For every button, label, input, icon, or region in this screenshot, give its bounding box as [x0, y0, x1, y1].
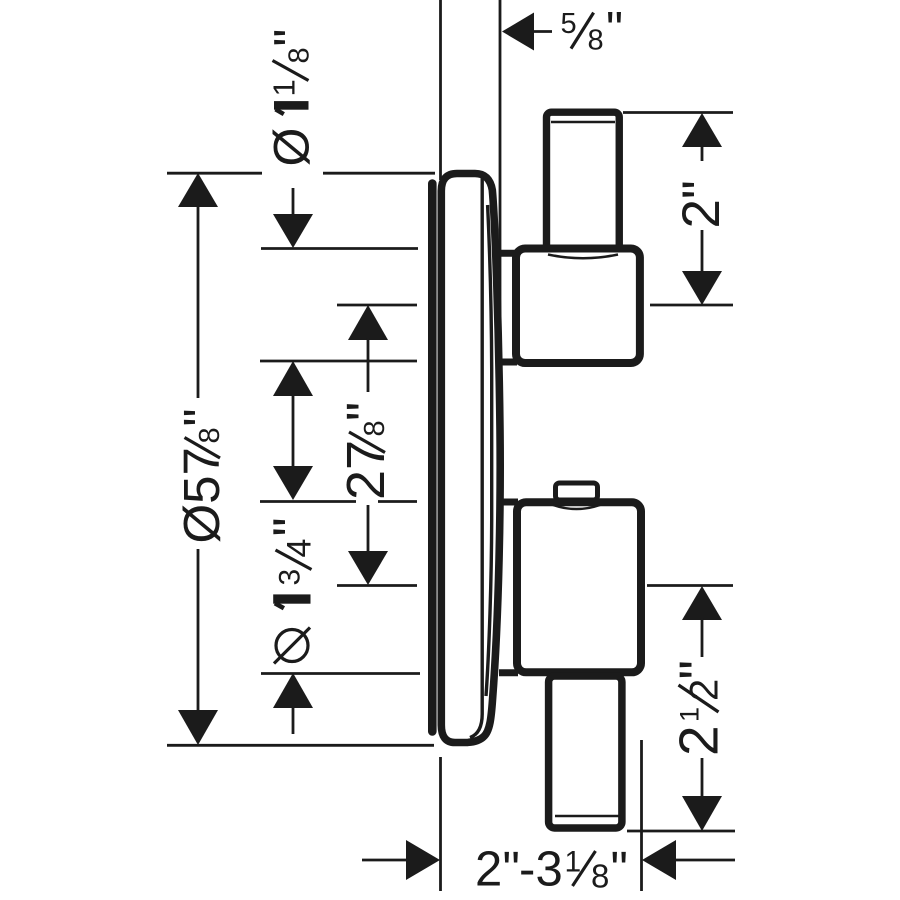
top handle stem inner top line [551, 121, 615, 124]
dimension 2in down arrow [682, 271, 722, 305]
bottom handle stem [549, 676, 622, 828]
label 1 3/4" rotated [263, 517, 323, 608]
svg-text:Ø: Ø [264, 128, 320, 167]
wire ext y501 left [260, 500, 356, 503]
wire ext y112 [623, 111, 733, 114]
svg-text:2: 2 [672, 199, 731, 228]
escutcheon plate outline [441, 174, 500, 743]
dimension bottom right-pointing arrow [406, 840, 440, 880]
wire ext y745 [167, 744, 434, 747]
wire dia5-7/8 stem lower [197, 549, 200, 711]
svg-text:2: 2 [336, 470, 396, 500]
wire bottom left tail [362, 859, 407, 862]
top handle sleeve stub upper [499, 250, 517, 257]
svg-text:": " [672, 180, 731, 199]
svg-text:-: - [519, 843, 535, 897]
dimension bottom left-pointing arrow [642, 840, 676, 880]
svg-text:8: 8 [194, 427, 226, 443]
top handle stem [547, 112, 620, 252]
label 2 1/2" rotated [668, 660, 730, 756]
wire 2-7/8 stem lower [367, 505, 370, 553]
dimension dia1-1/8 stem [292, 188, 295, 218]
label 5/8" [561, 4, 624, 57]
wire bottom right tail [676, 859, 735, 862]
svg-text:8: 8 [591, 858, 609, 895]
svg-text:": " [263, 517, 323, 536]
svg-text:2: 2 [668, 725, 730, 756]
dimension 1-3/4 up arrow [273, 361, 313, 396]
label 2" rotated [672, 180, 731, 228]
wire ext y831 [627, 830, 735, 833]
dimension dia up arrow [273, 673, 313, 708]
dimension 2-7/8 down arrow [348, 551, 388, 585]
wire dia5-7/8 stem upper [197, 205, 200, 398]
svg-text:Ø5: Ø5 [173, 475, 230, 543]
dimension 2-7/8 up arrow [348, 305, 388, 340]
label lone diameter symbol [274, 628, 310, 664]
wire ext y173 left [167, 172, 262, 175]
bottom handle body [517, 502, 641, 672]
wire 2-1/2 stem lower [701, 758, 704, 797]
dimension dia5-7/8 down arrow [178, 710, 218, 745]
svg-text:7: 7 [336, 440, 396, 470]
svg-text:4: 4 [281, 539, 319, 558]
svg-text:2: 2 [475, 843, 502, 897]
svg-text:1: 1 [267, 79, 302, 96]
svg-text:3: 3 [274, 569, 307, 586]
bottom handle sleeve stub lower [499, 669, 518, 676]
label 2 7/8" rotated [336, 402, 396, 500]
wire dia stem [292, 706, 295, 734]
svg-text:": " [606, 4, 623, 57]
dimension 1-3/4 down arrow [273, 466, 313, 500]
top handle stem collar arc [548, 255, 618, 259]
wire ext y248 [261, 247, 418, 250]
bottom handle tab [556, 483, 598, 500]
wire 2in stem upper [701, 145, 704, 161]
wire 2-7/8 stem upper [367, 338, 370, 392]
svg-text:": " [264, 29, 320, 47]
svg-text:8: 8 [359, 420, 391, 436]
wire V2 wall reference line [499, 0, 502, 497]
label dia 5 7/8" rotated [173, 408, 230, 543]
wire ext y585 right [647, 584, 733, 587]
dimension 2-1/2 down arrow [682, 796, 722, 831]
dimension 2in top line up arrow [682, 113, 722, 147]
label dia 1 1/8" rotated [264, 29, 320, 167]
escutcheon inner contour A [470, 177, 482, 738]
svg-text:8: 8 [588, 25, 604, 57]
wire ext y173 right [323, 172, 435, 175]
svg-text:7: 7 [173, 447, 230, 475]
wire V1 top reference line [439, 0, 442, 180]
svg-text:5: 5 [561, 8, 577, 40]
wire ext y673 [261, 672, 420, 675]
svg-text:1: 1 [675, 707, 705, 722]
wire V1 bottom reference line [439, 757, 442, 891]
svg-text:": " [173, 408, 230, 426]
wire 2-1/2 stem upper [701, 618, 704, 657]
wire 1-3/4 stem middle [292, 394, 295, 468]
svg-text:": " [503, 843, 520, 897]
wire right extension vertical [640, 740, 643, 891]
wire ext y305 left [337, 304, 417, 307]
bottom handle stem inner bottom line [555, 815, 619, 817]
label 2"-3 1/8" [475, 843, 628, 897]
svg-text:1: 1 [565, 846, 582, 879]
wire ext y305 right [650, 304, 733, 307]
svg-text:": " [668, 660, 730, 680]
escutcheon back flange [428, 179, 437, 736]
svg-text:8: 8 [284, 47, 316, 63]
wire ext y501 right [378, 500, 417, 503]
wire ext y361 [260, 360, 417, 363]
dimension dia5-7/8 up arrow [178, 173, 218, 207]
dimension 5/8 arrow left [502, 13, 534, 51]
wire 2in stem lower [701, 230, 704, 272]
wire ext y585 left [337, 584, 417, 587]
escutcheon inner contour B [486, 205, 492, 696]
bottom handle tab skirt arc [553, 505, 600, 509]
svg-text:3: 3 [536, 843, 563, 897]
svg-text:2: 2 [683, 679, 727, 701]
svg-text:": " [336, 402, 396, 421]
top handle body [516, 249, 640, 364]
top handle sleeve stub lower [499, 359, 517, 366]
dimension 2-1/2 up arrow [682, 586, 722, 620]
dimension dia1-1/8 down arrow [273, 214, 313, 248]
wire 5/8 tail [533, 30, 552, 33]
svg-text:": " [611, 843, 628, 897]
bottom handle sleeve stub upper [499, 499, 518, 506]
